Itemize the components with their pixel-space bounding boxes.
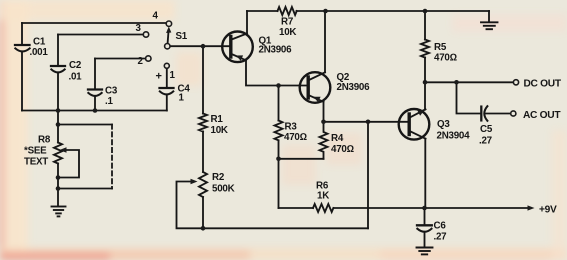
svg-text:R7: R7: [281, 16, 294, 27]
svg-text:+9V: +9V: [539, 204, 557, 215]
ground below R8: [52, 207, 66, 217]
svg-text:DC OUT: DC OUT: [524, 79, 562, 90]
wire R3 bottom lead: [278, 141, 280, 159]
Q1 emitter arrowhead (PNP): [236, 55, 243, 60]
wire feedback node: Q3 base column down to bottom rail: [367, 122, 369, 229]
resistor R8: [54, 143, 62, 164]
R8 wiper arrowhead: [60, 147, 67, 152]
node Q2 collector / rail junction: [323, 9, 328, 14]
node R8 top: [56, 122, 61, 127]
capacitor C6: [417, 208, 432, 247]
open terminals: [143, 21, 518, 116]
wire Q2 collector to top rail: [324, 11, 326, 72]
svg-text:1: 1: [179, 93, 185, 104]
wire R1 top lead: [202, 46, 204, 113]
terminal DC OUT: [513, 80, 518, 85]
wire bottom rail of capacitor bank: [22, 110, 167, 112]
svg-text:1: 1: [170, 70, 176, 81]
svg-text:S1: S1: [176, 31, 188, 42]
transistor Q1: [222, 32, 253, 63]
node R5 / rail junction: [423, 9, 428, 14]
wire R5 bottom to Q3 emitter: [424, 58, 426, 110]
node R3/R4 bottom junction: [276, 157, 281, 162]
wire DC OUT: [425, 81, 513, 83]
node DC OUT junction: [423, 80, 428, 85]
svg-text:2N3906: 2N3906: [337, 82, 371, 93]
resistor R4: [320, 122, 328, 159]
terminal S1 pin 1: [164, 63, 169, 68]
svg-text:2N3906: 2N3906: [259, 45, 293, 56]
svg-text:R2: R2: [212, 172, 225, 183]
wire Q2 emitter down: [323, 102, 325, 122]
svg-text:470Ω: 470Ω: [434, 52, 457, 63]
top rail (ground rail): [247, 10, 278, 12]
capacitor C1: [15, 23, 30, 111]
wire Q3 collector to +9V rail: [424, 139, 426, 208]
wire R3/R4 bottoms joined: [279, 158, 324, 160]
+9V arrowhead: [528, 205, 535, 210]
node R8 ground: [56, 186, 61, 191]
R2 wiper arrowhead: [191, 179, 198, 184]
+9V rail right segment: [334, 207, 531, 209]
wire C3 to S1 terminal 2: [95, 58, 146, 60]
node C3 / rail junction: [93, 108, 98, 113]
node Q3 base / feedback junction: [366, 120, 371, 125]
R8 wiper: [58, 150, 79, 178]
S1 wiper arrowhead: [166, 27, 171, 34]
+9V rail left segment: [279, 207, 314, 209]
svg-text:Q3: Q3: [437, 119, 450, 130]
wire R1 to R2: [202, 132, 204, 173]
wire R8 bottom lead: [57, 164, 59, 207]
svg-text:TEXT: TEXT: [24, 157, 48, 168]
resistor R3: [275, 121, 283, 141]
svg-text:10K: 10K: [279, 27, 296, 38]
svg-text:470Ω: 470Ω: [331, 144, 354, 155]
svg-text:.1: .1: [105, 96, 113, 107]
svg-text:C3: C3: [105, 85, 118, 96]
node R2 bottom rail junction: [201, 226, 206, 231]
svg-text:R8: R8: [38, 135, 51, 146]
node Q2 emitter / R4 junction: [321, 120, 326, 125]
svg-text:.27: .27: [479, 135, 493, 146]
Q2 emitter arrowhead (PNP): [314, 97, 321, 103]
wire R5 top lead: [424, 11, 426, 40]
svg-text:3: 3: [136, 23, 142, 34]
capacitor C5: [481, 106, 510, 121]
wire S1 common to Q1 base and R1: [170, 45, 229, 47]
transistor Q2: [300, 72, 331, 103]
wire C1 top to S1 terminal 4: [22, 22, 166, 24]
terminal S1 pin 4: [166, 21, 171, 26]
svg-text:C1: C1: [33, 36, 46, 47]
potentiometer R2: [199, 172, 207, 197]
svg-text:2: 2: [138, 56, 144, 67]
svg-text:.01: .01: [69, 72, 83, 83]
svg-text:*SEE: *SEE: [24, 146, 47, 157]
svg-text:470Ω: 470Ω: [284, 132, 307, 143]
terminal S1 common: [165, 44, 170, 49]
wire Q2 emitter to Q3 base: [324, 121, 408, 123]
svg-text:C2: C2: [69, 60, 82, 71]
transistor Q3: [399, 109, 430, 140]
switch S1 wiper arrow: [168, 30, 169, 43]
terminal S1 pin 2: [146, 56, 151, 61]
resistor R7: [278, 7, 297, 15]
svg-text:AC OUT: AC OUT: [523, 110, 561, 121]
wire R2 bottom lead: [202, 197, 204, 228]
wire C2 to S1 terminal 3: [58, 34, 143, 36]
arrowheads: [60, 27, 535, 211]
wire R3 top lead: [278, 86, 280, 121]
svg-text:C6: C6: [434, 220, 447, 231]
R8 remote-mount box (dashed): [58, 124, 112, 126]
svg-text:R1: R1: [211, 114, 224, 125]
node Q1 emitter / R3 junction: [276, 83, 281, 88]
svg-text:1K: 1K: [317, 190, 329, 201]
node S1 common / R1 junction: [201, 44, 206, 49]
node AC branch junction: [454, 80, 459, 85]
Q3 emitter arrowhead (NPN): [417, 110, 425, 116]
terminal S1 pin 3: [143, 32, 148, 37]
capacitor C4: [160, 68, 174, 110]
svg-text:C5: C5: [480, 124, 493, 135]
wire R3 node down to +9V rail: [278, 159, 280, 208]
capacitor C2: [51, 35, 65, 111]
R2 wiper wire: [177, 182, 369, 229]
wire Q1 emitter to Q2 base: [246, 60, 307, 85]
svg-text:4: 4: [153, 11, 159, 22]
node R8 wiper bottom: [56, 175, 61, 180]
svg-text:500K: 500K: [212, 183, 235, 194]
wire Q1 collector to top rail: [246, 11, 248, 34]
capacitor C3: [88, 59, 102, 111]
svg-text:2N3904: 2N3904: [437, 130, 471, 141]
resistor R5: [421, 40, 429, 58]
svg-text:R3: R3: [285, 121, 298, 132]
svg-text:10K: 10K: [211, 125, 228, 136]
wire AC branch down: [457, 82, 481, 113]
ground top right: [481, 11, 498, 29]
wire R8 top lead: [57, 111, 59, 143]
svg-text:+: +: [156, 71, 162, 83]
terminal AC OUT: [511, 111, 516, 116]
node C2 / R8 / rail junction: [56, 108, 61, 113]
resistor R1: [199, 114, 207, 132]
ground below C6: [417, 248, 433, 255]
top rail continues: [297, 10, 490, 12]
svg-text:.001: .001: [30, 47, 49, 58]
node Q3 collector / +9V rail junction: [422, 206, 427, 211]
svg-text:.27: .27: [434, 231, 448, 242]
resistor R6: [313, 204, 333, 212]
svg-text:R4: R4: [331, 133, 344, 144]
